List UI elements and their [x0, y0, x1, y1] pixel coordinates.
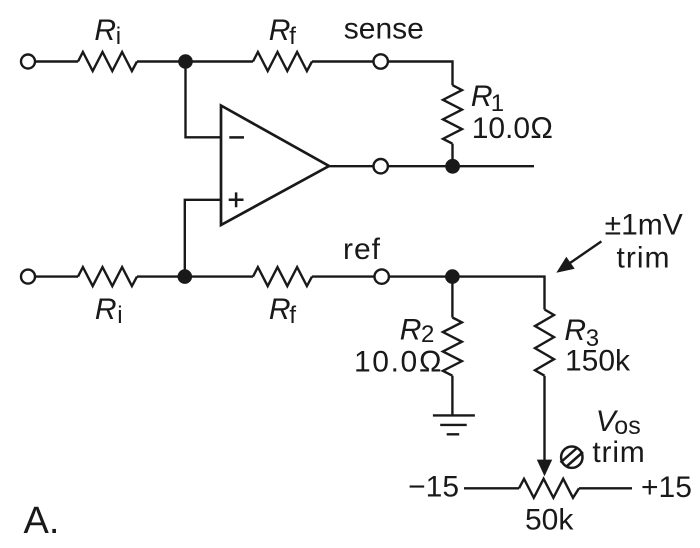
resistor Rf (top) — [253, 52, 312, 71]
wire ref node to R2 — [451, 277, 453, 318]
op-amp U1 — [221, 106, 329, 226]
Vos trim screw symbol — [561, 447, 584, 468]
svg-text:2: 2 — [421, 321, 434, 348]
svg-text:R: R — [269, 293, 291, 326]
svg-text:trim: trim — [592, 436, 645, 469]
svg-text:ref: ref — [343, 233, 381, 266]
svg-text:trim: trim — [617, 242, 671, 275]
svg-text:10.0Ω: 10.0Ω — [472, 112, 553, 145]
wire R1 to output node — [451, 144, 453, 167]
ref terminal circle — [375, 269, 389, 283]
label R3 — [564, 314, 599, 352]
wire input-bottom to Ri — [35, 275, 78, 277]
svg-text:A.: A. — [24, 500, 60, 542]
label R1 — [471, 80, 504, 117]
svg-text:R: R — [94, 14, 116, 47]
resistor R1 — [443, 85, 462, 144]
node top junction dot — [178, 54, 193, 69]
svg-text:R: R — [95, 293, 117, 326]
wire R2 to ground — [451, 376, 453, 416]
resistor Ri (bottom) — [78, 267, 137, 286]
resistor Ri (top) — [78, 52, 137, 71]
wire ref to R3 corner — [389, 277, 545, 310]
wire pot to +15 — [579, 487, 632, 489]
label Vos — [596, 405, 641, 440]
potentiometer 50k — [519, 479, 579, 498]
svg-text:50k: 50k — [525, 504, 574, 537]
wire Rf to sense terminal — [312, 60, 374, 62]
svg-text:i: i — [117, 302, 122, 329]
node output junction dot — [445, 159, 460, 174]
label Rf (top) — [269, 14, 297, 50]
svg-text:R: R — [471, 80, 493, 113]
resistor Rf (bottom) — [253, 267, 312, 286]
wire Rf to ref terminal — [312, 275, 375, 277]
svg-text:i: i — [116, 23, 121, 50]
svg-text:R: R — [269, 14, 291, 47]
ground — [433, 415, 475, 434]
node bottom junction dot — [178, 269, 193, 284]
svg-text:sense: sense — [344, 12, 424, 45]
input terminal top — [21, 55, 35, 69]
wire Ri to Rf (through summing node) — [137, 60, 253, 62]
svg-text:f: f — [289, 23, 296, 50]
label Ri (top) — [94, 14, 121, 50]
wire Ri to Rf (bottom) — [137, 275, 253, 277]
plus sign — [229, 192, 244, 207]
output terminal circle — [374, 159, 388, 173]
wire -15 to pot — [464, 487, 519, 489]
wire R3 to wiper arrow — [543, 376, 545, 461]
svg-text:−15: −15 — [408, 471, 459, 504]
wire op-amp output — [329, 165, 374, 167]
resistor R2 — [443, 318, 462, 376]
label R2 — [400, 313, 435, 348]
wiper arrowhead — [537, 460, 552, 477]
svg-text:±1mV: ±1mV — [605, 209, 683, 242]
minus sign — [229, 136, 244, 139]
wire non-inverting input — [185, 200, 221, 277]
svg-text:R: R — [400, 313, 422, 346]
wire input-top to Ri — [35, 60, 78, 62]
svg-text:+15: +15 — [641, 471, 692, 504]
sense terminal circle — [374, 54, 388, 68]
wire inverting input — [186, 62, 222, 138]
svg-text:10.0Ω: 10.0Ω — [354, 345, 443, 378]
trim arrow (±1mV) — [570, 241, 601, 263]
input terminal bottom — [21, 270, 35, 284]
label Rf (bottom) — [269, 293, 297, 329]
svg-text:f: f — [289, 302, 296, 329]
svg-text:150k: 150k — [565, 345, 631, 378]
resistor R3 — [535, 310, 554, 376]
label Ri (bottom) — [95, 293, 123, 329]
node ref junction dot — [445, 269, 460, 284]
svg-text:R: R — [564, 314, 586, 347]
wire sense to R1 corner — [388, 62, 453, 86]
wire output to right — [388, 165, 534, 167]
